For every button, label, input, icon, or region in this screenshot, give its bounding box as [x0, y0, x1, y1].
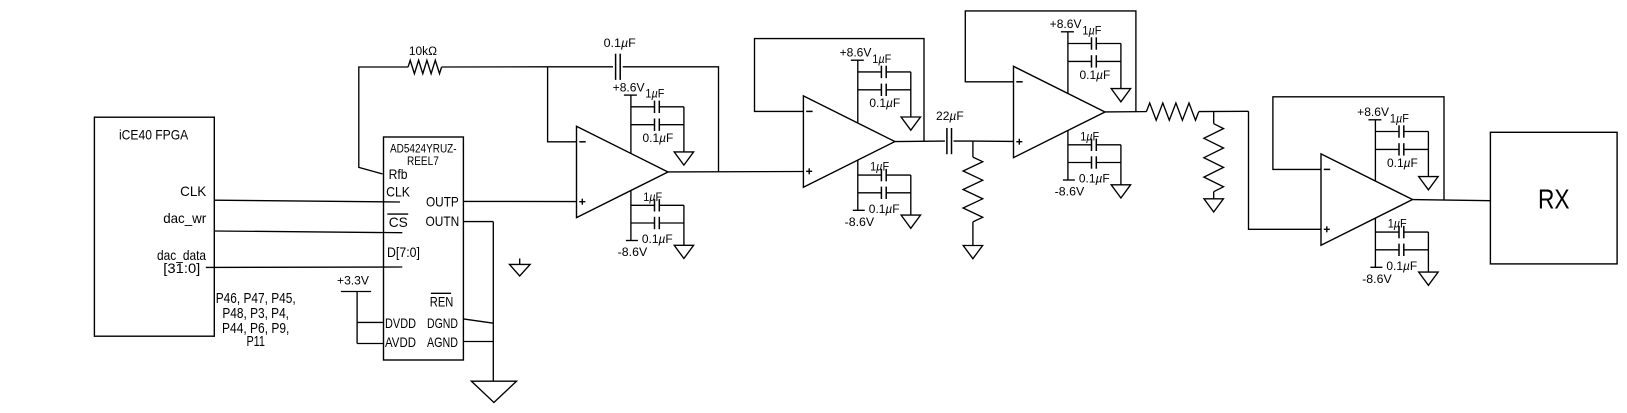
ground (U3D V-): [1419, 272, 1438, 285]
wire U3B out to C9: [895, 140, 945, 143]
pin label CS with overline: [387, 214, 408, 230]
svg-text:-8.6V: -8.6V: [1362, 273, 1392, 286]
svg-text:dac_wr: dac_wr: [163, 210, 206, 226]
svg-text:+8.6V: +8.6V: [1050, 18, 1082, 31]
svg-text:0.1µF: 0.1µF: [1386, 260, 1417, 273]
+8.6V power rail and wires (U3B V+): [851, 60, 911, 123]
svg-text:P11: P11: [246, 334, 265, 350]
capacitor C1 0.1µF feedback: [615, 54, 617, 80]
ground (U3C V-): [1111, 185, 1130, 198]
-8.6V power rail and wires (U3B V-): [853, 160, 911, 215]
svg-text:RX: RX: [1538, 183, 1570, 214]
svg-text:0.1µF: 0.1µF: [1387, 157, 1418, 170]
wire inverting node to U3A -: [548, 67, 577, 142]
FPGA block U2 box: [94, 117, 214, 336]
svg-text:OUTP: OUTP: [426, 193, 459, 209]
+8.6V power rail and wires (U3D V+): [1368, 120, 1428, 181]
ground (U3A V-): [674, 245, 693, 258]
capacitor 0.1µF (U3D V-): [1398, 244, 1400, 256]
wire C9 to node A: [954, 140, 973, 142]
svg-text:1µF: 1µF: [870, 161, 889, 174]
svg-text:AD5424YRUZ-: AD5424YRUZ-: [390, 142, 457, 155]
capacitor 0.1µF (U3D V+): [1398, 143, 1400, 155]
svg-text:-8.6V: -8.6V: [618, 246, 648, 259]
ground (U3A V+): [674, 152, 693, 165]
ground (U3D V+): [1419, 177, 1438, 190]
capacitor 1µF (U3A V+): [654, 101, 656, 113]
wire R4 to ground: [1213, 192, 1215, 199]
svg-text:1µF: 1µF: [1080, 130, 1099, 143]
svg-text:10kΩ: 10kΩ: [409, 44, 437, 58]
capacitor 0.1µF (U3B V-): [880, 187, 882, 199]
+3.3V power symbol and wires to DVDD/AVDD: [341, 292, 384, 344]
wire node A down to R2: [972, 141, 974, 157]
wire node to C1: [548, 66, 613, 68]
-8.6V power rail and wires (U3C V-): [1063, 131, 1121, 185]
wire R2 to ground: [972, 222, 974, 246]
svg-text:REN: REN: [430, 294, 454, 310]
wire OUTN/DGND/AGND to ground: [463, 222, 493, 382]
svg-text:0.1µF: 0.1µF: [642, 233, 673, 246]
op-amp U3D: [1321, 154, 1413, 245]
op-amp U3C: [1014, 66, 1106, 157]
+8.6V power rail and wires (U3A V+): [624, 95, 684, 153]
resistor R2 (shunt): [963, 157, 983, 222]
capacitor 1µF (U3D V-): [1398, 226, 1400, 238]
svg-text:0.1µF: 0.1µF: [643, 132, 674, 145]
FPGA pin assignment note P46..P11: [216, 291, 296, 350]
-8.6V power rail and wires (U3A V-): [626, 191, 684, 246]
svg-text:D[7:0]: D[7:0]: [387, 244, 420, 260]
svg-text:DGND: DGND: [427, 315, 458, 331]
wire OUTP to U3A +: [463, 200, 576, 202]
resistor R3 (series): [1146, 103, 1198, 120]
+8.6V power rail and wires (U3C V+): [1061, 32, 1121, 94]
wire node A to U3C +: [973, 140, 1014, 142]
svg-text:+8.6V: +8.6V: [613, 81, 645, 94]
svg-text:CLK: CLK: [386, 183, 410, 199]
pin label REN with overline: [430, 293, 454, 309]
svg-text:1µF: 1µF: [1082, 24, 1101, 37]
svg-text:0.1µF: 0.1µF: [1079, 173, 1110, 186]
capacitor 1µF (U3B V+): [880, 66, 882, 78]
capacitor 0.1µF (U3C V+): [1091, 55, 1093, 67]
capacitor 1µF (U3C V+): [1091, 37, 1093, 49]
svg-text:REEL7: REEL7: [407, 155, 439, 168]
svg-text:P48, P3, P4,: P48, P3, P4,: [222, 306, 289, 322]
wire U3C feedback loop: [965, 11, 1136, 112]
svg-text:OUTN: OUTN: [426, 213, 460, 229]
DAC U1 box AD5424: [384, 137, 464, 360]
svg-text:1µF: 1µF: [643, 191, 662, 204]
ground (U3B V-): [901, 215, 920, 228]
svg-text:0.1µF: 0.1µF: [869, 203, 900, 216]
wire dac_wr net: [214, 231, 402, 233]
capacitor 0.1µF (U3C V-): [1091, 156, 1093, 168]
op-amp U3B: [803, 96, 895, 187]
svg-text:0.1µF: 0.1µF: [1080, 69, 1111, 82]
wire U3D feedback loop: [1273, 97, 1444, 200]
svg-text:+8.6V: +8.6V: [1357, 106, 1389, 119]
op-amp U3A: [577, 126, 669, 217]
svg-text:0.1µF: 0.1µF: [604, 37, 636, 50]
svg-text:+3.3V: +3.3V: [337, 273, 370, 287]
svg-text:1µF: 1µF: [1388, 218, 1407, 231]
wire U3B feedback loop: [755, 39, 925, 142]
-8.6V power rail and wires (U3D V-): [1370, 218, 1428, 272]
svg-text:DVDD: DVDD: [385, 315, 416, 331]
RX block box: [1490, 132, 1617, 264]
wire U3A out to U3B +: [668, 171, 803, 173]
svg-text:-8.6V: -8.6V: [845, 216, 875, 229]
svg-text:0.1µF: 0.1µF: [869, 97, 900, 110]
capacitor 0.1µF (U3B V+): [880, 84, 882, 96]
svg-text:1µF: 1µF: [645, 88, 664, 101]
svg-text:iCE40 FPGA: iCE40 FPGA: [119, 128, 189, 143]
ground (U3B V+): [901, 117, 920, 130]
capacitor 0.1µF (U3A V+): [654, 119, 656, 131]
ground (DAC): [471, 381, 516, 402]
svg-text:AVDD: AVDD: [385, 334, 416, 350]
wire Rfb feedback: [359, 67, 408, 174]
wire R3 to node B: [1199, 110, 1249, 112]
wire node B to U3D +: [1249, 111, 1322, 229]
svg-text:-8.6V: -8.6V: [1055, 186, 1085, 199]
svg-text:+8.6V: +8.6V: [840, 46, 872, 59]
wire U3D out to RX: [1413, 200, 1491, 201]
capacitor 0.1µF (U3A V-): [654, 217, 656, 229]
capacitor 1µF (U3C V-): [1091, 139, 1093, 151]
ground (R2): [963, 246, 982, 259]
capacitor 1µF (U3D V+): [1398, 125, 1400, 137]
ground (R4): [1204, 199, 1223, 212]
svg-text:22µF: 22µF: [936, 109, 964, 123]
svg-text:AGND: AGND: [427, 334, 458, 350]
wire U3C out to R3: [1105, 111, 1146, 113]
wire CLK net: [214, 200, 400, 202]
resistor R1 10kΩ: [408, 60, 442, 73]
svg-text:1µF: 1µF: [1390, 112, 1409, 125]
svg-text:Rfb: Rfb: [389, 166, 408, 182]
resistor R4 (shunt): [1204, 124, 1224, 192]
svg-text:CLK: CLK: [180, 183, 207, 199]
capacitor 1µF (U3A V-): [654, 199, 656, 211]
capacitor 1µF (U3B V-): [880, 169, 882, 181]
wire dac_data bus: [206, 266, 402, 268]
wire C1 to U3A output: [623, 67, 719, 172]
capacitor C9 22µF: [946, 128, 948, 154]
svg-text:[31:0]: [31:0]: [163, 260, 200, 276]
ground (near OUTN): [510, 259, 531, 277]
ground (U3C V+): [1111, 89, 1130, 102]
svg-text:CS: CS: [389, 214, 408, 230]
wire node B down to R4: [1213, 112, 1215, 124]
wire R1 to inverting node: [442, 66, 548, 68]
svg-text:1µF: 1µF: [872, 53, 891, 66]
svg-text:P46, P47, P45,: P46, P47, P45,: [216, 291, 296, 307]
